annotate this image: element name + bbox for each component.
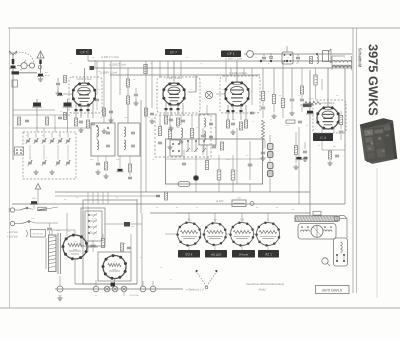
wire V4 right xyxy=(340,111,342,115)
wire drops tube2 region xyxy=(159,61,161,77)
wires transformer top xyxy=(51,230,53,235)
resistor R5 xyxy=(64,76,67,83)
wire right edge vertical xyxy=(344,68,346,204)
coil L9 xyxy=(317,55,318,63)
wires tuner to coil xyxy=(13,150,15,152)
capacitor C21 xyxy=(250,111,254,113)
wire left vertical main xyxy=(12,75,14,160)
capacitor C24 xyxy=(298,120,302,122)
resistor R15 xyxy=(226,120,229,128)
fuse box F1 xyxy=(232,200,246,207)
resistor R40 horizontal dark xyxy=(303,104,312,108)
resistor R36 xyxy=(165,192,168,200)
svg-text:„Abbild“: „Abbild“ xyxy=(258,288,266,291)
ground x263 xyxy=(262,156,264,159)
ground right column xyxy=(273,114,275,117)
svg-text:c: c xyxy=(58,135,59,137)
ferrite rod bar xyxy=(295,216,338,222)
capacitor C23 xyxy=(290,98,295,100)
section box audio xyxy=(166,139,263,184)
ground tube V3 xyxy=(232,130,234,133)
black label box module 3 xyxy=(221,51,241,58)
connector at dial xyxy=(335,217,340,221)
ground C12 xyxy=(57,91,59,94)
capacitor C25 xyxy=(339,130,344,132)
tuner trimmers row 1 xyxy=(26,139,30,141)
mains plug P2 xyxy=(10,221,14,225)
resistor R22 horizontal xyxy=(286,120,295,123)
mains switch S2 xyxy=(20,208,26,210)
electrolytic pair E2 xyxy=(268,163,274,169)
wires tube V1 pins down xyxy=(75,103,77,118)
grid components V4 xyxy=(314,75,317,85)
dial lamp wires bottom xyxy=(55,288,183,290)
rail AC1 xyxy=(55,191,310,193)
coil L13 vertical zigzag xyxy=(262,120,265,140)
heater tube H4 xyxy=(257,223,280,246)
capacitor C26 dark xyxy=(307,111,313,114)
nested box power inner xyxy=(85,211,102,241)
resistor R41 xyxy=(144,65,147,74)
IF transformer box T3 xyxy=(91,123,115,156)
voltage tap box xyxy=(31,230,46,238)
capacitor C12 xyxy=(56,82,60,84)
capacitor C35 xyxy=(150,112,154,114)
resistor R26 xyxy=(220,142,223,150)
output transformer T2 xyxy=(332,61,351,63)
svg-text:bei 110-220: bei 110-220 xyxy=(33,234,44,236)
resistor R39 xyxy=(129,164,132,172)
capacitor C6 xyxy=(269,56,273,58)
pilot lamp row xyxy=(57,286,63,292)
capacitor C30 with dot xyxy=(193,175,198,180)
svg-text:4700: 4700 xyxy=(45,75,51,77)
switch block dark xyxy=(12,71,20,74)
resistor R19 xyxy=(261,92,264,101)
resistor R20 xyxy=(272,95,275,104)
antenna coil box xyxy=(15,147,24,155)
wire antenna A2 down xyxy=(40,64,42,73)
page bottom border line xyxy=(0,307,400,309)
wire links tuner to tube1 xyxy=(54,115,56,132)
wire horizontal y128 left xyxy=(13,127,91,129)
capacitor C45 dark marks xyxy=(297,157,302,159)
capacitor C16 xyxy=(181,119,185,121)
headphone jack circle xyxy=(322,258,328,264)
terminal strip in box xyxy=(170,140,182,156)
dashed box around tube V1 xyxy=(69,77,102,113)
rail AC2 xyxy=(150,212,310,214)
svg-text:н51Ц20: н51Ц20 xyxy=(211,252,222,256)
heater tube H1 xyxy=(178,223,201,246)
capacitor C15 xyxy=(169,118,173,120)
capacitor C42 xyxy=(96,162,100,164)
resistor R35 xyxy=(205,161,208,170)
wire right column x263 xyxy=(262,140,264,150)
wire V4 grid xyxy=(301,104,303,112)
nested box power outer xyxy=(83,200,137,284)
wire x299 down xyxy=(298,127,300,204)
wire top right bus xyxy=(256,53,352,55)
svg-text:Ω 200 V 1,7mA: Ω 200 V 1,7mA xyxy=(101,55,119,59)
IF transformer box T5 xyxy=(199,114,216,145)
capacitor C14 xyxy=(25,119,29,121)
wire tube V3 anode xyxy=(236,61,238,82)
svg-text:= 220 Volt: = 220 Volt xyxy=(7,236,18,239)
antenna A1 symbol xyxy=(12,52,14,59)
wire x237 down from tube V3 xyxy=(236,128,238,184)
resistor R14 xyxy=(190,129,193,138)
dial assembly box xyxy=(298,224,336,240)
resistor R38 xyxy=(105,162,108,170)
resistor R3 xyxy=(74,118,77,126)
diode D1 circle xyxy=(205,91,212,98)
heater row connecting wires xyxy=(165,233,178,235)
tuning capacitor disc xyxy=(311,225,323,237)
resistor R29 hatched xyxy=(38,207,47,210)
wire drops from buses left xyxy=(96,61,98,95)
svg-text:Ω 160V 2,1mA: Ω 160V 2,1mA xyxy=(225,57,242,61)
wire lamp feed xyxy=(59,276,61,286)
capacitor C20 xyxy=(231,122,235,124)
wire bus left start xyxy=(87,49,89,61)
padder capacitor dark 1 xyxy=(33,103,41,107)
capacitor C33 xyxy=(95,98,99,100)
resistor R25 xyxy=(328,151,331,159)
capacitor C32 xyxy=(248,163,253,165)
wire tube3 to IF5 xyxy=(216,93,225,95)
svg-text:W.tryst: W.tryst xyxy=(239,252,248,256)
wire screen V2 xyxy=(188,91,196,93)
wires tube V2 pins xyxy=(165,103,167,116)
ground C13 xyxy=(135,101,137,104)
resistor R21 xyxy=(281,99,284,108)
capacitor C36 xyxy=(58,116,62,118)
capacitor C13 xyxy=(134,93,138,95)
wire xyxy=(262,68,264,91)
mains plug P1 xyxy=(10,208,14,212)
radio chassis photo xyxy=(359,117,398,165)
box around U2 xyxy=(98,252,131,281)
dark component on heater wire xyxy=(124,222,130,227)
cap across mains xyxy=(47,227,52,229)
resistor R16 xyxy=(239,122,242,130)
black label box module 1 xyxy=(76,49,92,55)
rectifier tube U1 xyxy=(63,235,87,259)
rotary switch S1 xyxy=(21,63,27,69)
resistor R8 xyxy=(18,117,21,125)
resistor R30 xyxy=(310,57,313,64)
schematic right border double line xyxy=(352,28,354,293)
resistor R34 xyxy=(64,113,67,120)
svg-text:AZ 1: AZ 1 xyxy=(265,252,272,256)
page top border line xyxy=(8,27,400,29)
tube V4 xyxy=(317,107,339,129)
wire right mid vertical xyxy=(309,70,311,215)
capacitor C1 dark xyxy=(11,66,16,68)
connector on rail xyxy=(313,211,321,215)
wire output top xyxy=(321,79,323,90)
wire row xyxy=(13,114,70,116)
dark component lamp row xyxy=(111,283,116,287)
black label box module 2 xyxy=(165,49,182,55)
tube V2 xyxy=(163,83,185,105)
wire mid audio xyxy=(195,155,197,175)
resistor R12 xyxy=(158,127,161,136)
dashed tuner gang box xyxy=(23,132,76,179)
capacitor C27 xyxy=(300,98,304,100)
wire right low xyxy=(295,132,297,145)
wire horizontal y115 left xyxy=(13,109,55,111)
wire power box verticals xyxy=(87,192,89,204)
node dots top xyxy=(260,60,262,62)
tube V3 xyxy=(225,82,249,106)
ground tube V2 xyxy=(170,126,172,129)
svg-text:CF 7: CF 7 xyxy=(81,50,88,54)
capacitor C5 xyxy=(262,56,266,58)
capacitor C28 xyxy=(335,154,339,156)
wires power section xyxy=(61,246,63,248)
capacitor C39 xyxy=(261,151,265,153)
svg-text:Gezeichnete Wellenschalterstel: Gezeichnete Wellenschalterstellung xyxy=(246,283,285,286)
dashed arc antenna swing xyxy=(16,52,34,62)
dashed box around tube V3 xyxy=(220,76,260,113)
resistor R6 xyxy=(126,79,129,87)
tuner gang grounds xyxy=(35,170,37,173)
heater wires xyxy=(176,212,280,214)
capacitor C41 xyxy=(303,150,307,152)
wire tube V4 anode xyxy=(327,68,329,107)
wires dial area xyxy=(309,213,311,215)
capacitor C22 xyxy=(261,106,266,108)
ground under coil L13 xyxy=(264,140,266,148)
ground R13 xyxy=(169,145,171,148)
resistor R28 xyxy=(231,170,235,180)
capacitor C38 xyxy=(182,162,186,164)
ground mid1 xyxy=(103,129,105,132)
svg-text:wdg: wdg xyxy=(113,269,117,271)
small parts above U2 xyxy=(121,243,124,251)
interference cap dark xyxy=(31,201,37,204)
resistor R27 xyxy=(217,170,221,180)
resistor R24 xyxy=(300,86,303,94)
wire drops tube3 region xyxy=(225,61,227,82)
wire IF support verticals xyxy=(140,100,142,213)
capacitor C34 xyxy=(109,110,113,112)
wires tube V3 pins xyxy=(227,105,229,120)
contacts in power box xyxy=(88,214,90,216)
resistor R23 xyxy=(339,116,342,125)
ballast resistor unit xyxy=(334,238,348,266)
heater tube H3 xyxy=(231,223,254,246)
wire xyxy=(102,234,104,238)
wire V4 lower xyxy=(321,141,323,150)
capacitor C7 xyxy=(296,56,300,58)
svg-text:Ω (H2E) 0,8mA: Ω (H2E) 0,8mA xyxy=(229,71,247,75)
dashed box around tube V2 xyxy=(157,77,200,113)
part number box xyxy=(316,286,350,294)
switch contacts in box xyxy=(187,141,189,152)
wire x250 down xyxy=(249,184,251,192)
resistor R18 xyxy=(248,128,250,130)
ground V4 area xyxy=(329,161,331,164)
power transformer winding xyxy=(49,235,57,272)
resistor R11 xyxy=(176,118,179,126)
wire antenna A1 down xyxy=(12,64,14,72)
black label box V4 xyxy=(313,133,333,141)
capacitor C11 xyxy=(91,122,95,124)
rail AC1b xyxy=(55,195,160,197)
resistor R37 xyxy=(294,146,297,155)
wire xyxy=(291,68,293,98)
title text 3975 GWKS rotated xyxy=(369,44,378,115)
capacitor C44 xyxy=(128,176,132,178)
wire dial to plug xyxy=(339,218,347,220)
svg-text:3975 GWLS: 3975 GWLS xyxy=(322,288,343,292)
black label H1 xyxy=(178,250,200,258)
page right inner border line xyxy=(376,168,378,298)
resistor R33 xyxy=(145,108,148,116)
filter cap C40 xyxy=(91,244,96,246)
capacitor C10 xyxy=(79,120,83,122)
ground right low xyxy=(295,165,297,168)
tuner trimmers row 2 xyxy=(28,161,32,163)
wires detector area xyxy=(202,145,204,155)
svg-text:EU Ⅱ: EU Ⅱ xyxy=(186,252,193,256)
ground mid2 xyxy=(151,119,153,122)
wires mid box xyxy=(159,115,161,126)
wire IF chain xyxy=(127,68,129,79)
mains switch S3 xyxy=(22,222,28,224)
resistor R31 xyxy=(101,239,104,248)
svg-text:↠ Wellen-Ω-1-A →: ↠ Wellen-Ω-1-A → xyxy=(186,288,208,292)
svg-text:4 50 6,3 A: 4 50 6,3 A xyxy=(129,294,139,297)
wire x270 down xyxy=(269,135,271,192)
svg-text:Ω 12V: Ω 12V xyxy=(216,199,224,203)
capacitor C37 xyxy=(156,194,160,196)
electrolytic pair E1 xyxy=(268,144,274,150)
wire under IF xyxy=(97,156,99,162)
svg-text:CF 1: CF 1 xyxy=(227,52,234,56)
heater tube H2 xyxy=(204,223,226,245)
wave switch arrows xyxy=(197,272,207,287)
dashed box around tube V4 xyxy=(313,100,346,133)
svg-text:CF 7: CF 7 xyxy=(170,50,177,54)
capacitor C17 xyxy=(158,141,162,143)
wire x142 down xyxy=(141,213,143,286)
svg-text:Ω (90P) 1,2mA: Ω (90P) 1,2mA xyxy=(100,71,118,75)
black label H4 xyxy=(258,250,279,258)
padder capacitor dark 2 xyxy=(64,103,72,107)
capacitor C19 xyxy=(201,134,205,136)
wires in audio box xyxy=(218,155,220,170)
ground lamp row xyxy=(59,296,61,299)
capacitor C18 xyxy=(179,140,183,142)
dashed section box mid xyxy=(155,115,211,157)
tube V1 xyxy=(73,83,96,106)
heater feed wire xyxy=(105,223,142,225)
ground tube V1 cathode xyxy=(80,128,82,131)
jack J1 xyxy=(247,51,254,58)
ground antenna A2 xyxy=(40,77,42,80)
resistor R32 xyxy=(103,108,106,116)
antenna A2 triangle xyxy=(37,51,44,58)
wire U1 up xyxy=(66,213,68,236)
resistor R13 xyxy=(168,130,171,139)
rectifier tube U2 xyxy=(103,256,126,279)
resistor R4 xyxy=(86,120,89,128)
svg-text:wdg: wdg xyxy=(73,249,77,251)
subtitle Schaltbild rotated xyxy=(359,48,362,67)
svg-text:d: d xyxy=(30,157,31,159)
crystal X1 box xyxy=(282,52,293,64)
pill capacitor C31 xyxy=(178,182,190,187)
nested box power mid xyxy=(81,208,105,246)
capacitor C2 dark xyxy=(38,74,43,76)
bus +100V xyxy=(88,60,352,62)
transformer core lines xyxy=(57,233,59,274)
bus screen xyxy=(110,74,260,76)
wire tube V4 cathode xyxy=(321,127,323,133)
speaker SP1 xyxy=(323,51,329,62)
svg-text:C 4: C 4 xyxy=(320,136,326,140)
black label H2 xyxy=(205,250,227,258)
wire heater chain lower xyxy=(152,281,154,286)
wire xyxy=(273,68,275,94)
bus anode xyxy=(92,67,352,69)
page left border line xyxy=(9,28,11,308)
resistor R10 xyxy=(164,116,167,124)
component near fuse xyxy=(250,202,254,206)
wire tube V1 anode up xyxy=(84,68,86,84)
resistor R9 xyxy=(46,117,49,125)
wire tube V2 anode xyxy=(173,61,175,82)
black label H3 xyxy=(232,250,255,258)
coil L12 xyxy=(181,128,183,138)
ground under IF xyxy=(97,170,99,173)
resistor R7 xyxy=(126,96,129,104)
svg-text:~ 110 Volt: ~ 110 Volt xyxy=(7,231,18,234)
capacitor C29 xyxy=(212,145,216,147)
resistor R17 xyxy=(244,120,247,128)
capacitor C43 dark xyxy=(118,169,123,171)
grid cap lead tube V1 xyxy=(63,93,74,95)
coupling loop L1 xyxy=(12,80,18,87)
dial lamp triangle symbol xyxy=(35,184,40,190)
IF transformer box T4 xyxy=(118,123,140,156)
wire segment xyxy=(57,78,59,82)
rail heater xyxy=(12,203,345,205)
